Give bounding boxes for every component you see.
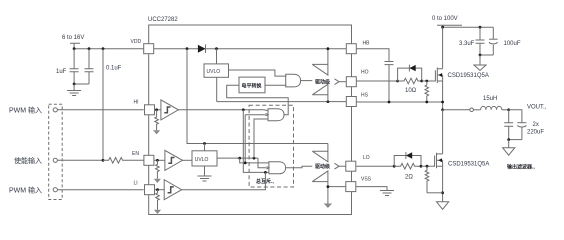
resistor 2 ohm — [394, 163, 421, 180]
interlock dashed box — [249, 105, 293, 187]
terminal circle EN — [53, 158, 57, 162]
svg-text:驱动级: 驱动级 — [315, 79, 330, 86]
wire to Q2 gate — [421, 165, 435, 167]
and gate interlock lower — [267, 162, 286, 174]
node HI pulldown — [155, 108, 158, 111]
pin HO — [346, 70, 368, 87]
capacitor 1uF — [56, 49, 79, 84]
transistor Q1 CSD19531Q5A — [435, 68, 488, 84]
ground Q2 source — [437, 202, 449, 210]
wire driver-hi bottom ref — [327, 95, 329, 102]
wire EN input — [57, 159, 103, 161]
label UCC27282 — [148, 17, 178, 23]
wire AND-hi to driver — [301, 80, 313, 82]
ground HV caps — [474, 55, 486, 71]
node 0.1uF junction — [88, 47, 91, 50]
wire Q2 pulldown join — [427, 192, 443, 194]
wire LO external — [356, 165, 394, 167]
wire Q1 source down — [442, 81, 444, 110]
wire HB external — [356, 49, 389, 62]
svg-text:驱动级: 驱动级 — [315, 163, 330, 170]
capacitor output film — [504, 110, 513, 140]
pin VDD — [131, 39, 154, 54]
node EN pulldown — [156, 159, 159, 162]
resistor Q2 gate-source — [425, 166, 429, 193]
wire to cap2 — [509, 110, 522, 123]
wire UVLO-hi feed — [216, 49, 218, 64]
node EN pullup junction — [102, 159, 105, 162]
node SW HS — [441, 101, 444, 104]
svg-text:PWM 输入: PWM 输入 — [9, 186, 42, 195]
wire EN up to AND1 — [254, 119, 268, 158]
svg-text:HO: HO — [361, 70, 369, 76]
label PWM input top — [9, 106, 42, 115]
IC UCC27282 outline — [149, 25, 352, 215]
wire internal VDD-HB rail — [154, 48, 347, 50]
and gate high-side output — [286, 74, 301, 87]
svg-text:UVLO: UVLO — [195, 157, 209, 163]
pin HB — [346, 41, 370, 54]
node EN-feed junction — [102, 47, 105, 50]
terminal circle SW — [470, 108, 474, 112]
node output cap 1 — [507, 108, 510, 111]
wire Q2 source down — [442, 166, 444, 202]
buffer HI schmitt — [155, 100, 179, 120]
node AND2 LI input — [264, 171, 267, 174]
svg-text:0 to 100V: 0 to 100V — [432, 16, 458, 22]
wire driver-hi out to HO — [339, 81, 346, 83]
node UVLO-lo top — [203, 142, 206, 145]
node UVLO-hi feed — [215, 47, 218, 50]
node gate2 network right — [420, 165, 423, 168]
diode turn-off high — [398, 65, 422, 81]
supply label 6 to 16V — [62, 35, 84, 41]
wire driver-hi top supply — [327, 47, 330, 64]
pin HI — [134, 100, 155, 115]
node EN split — [238, 157, 255, 160]
svg-text:输出滤波器.,: 输出滤波器., — [507, 164, 535, 171]
ground EN pulldown — [154, 179, 161, 183]
wire HS external — [356, 101, 442, 103]
wire UVLO-lo top feed — [204, 144, 206, 151]
and gate interlock upper — [266, 109, 284, 121]
transistor Q2 CSD19531Q5A — [435, 153, 490, 169]
node HI cross branch — [242, 108, 245, 111]
ground VSS external — [380, 191, 394, 196]
op-amp U-uvlo-hi box — [204, 64, 229, 77]
label 0 to 100V — [432, 16, 458, 22]
diode turn-off low — [394, 152, 421, 166]
node VDD branch — [186, 47, 189, 50]
wire EN buffer to UVLO — [183, 159, 193, 161]
svg-text:UCC27282: UCC27282 — [148, 17, 178, 23]
wire EN stub to AND2 wedge — [258, 158, 267, 168]
svg-text:HB: HB — [363, 41, 371, 47]
pin HS — [346, 93, 368, 107]
svg-text:3.3uF: 3.3uF — [459, 41, 475, 47]
pin EN — [132, 151, 154, 165]
capacitor 0.1uF — [85, 49, 122, 84]
svg-text:VOUT.,: VOUT., — [527, 105, 547, 111]
input connector dashed box — [49, 104, 63, 199]
wire UVLO-hi out to AND — [229, 70, 287, 76]
pin LI — [134, 181, 155, 195]
supply bar 6-16V — [70, 43, 80, 49]
buffer EN schmitt — [154, 150, 183, 170]
ground UVLO-lo — [198, 166, 212, 181]
label PWM input bottom — [9, 186, 42, 195]
label interlock — [256, 178, 274, 185]
wire output caps join — [507, 138, 522, 141]
wire HO external — [356, 80, 397, 82]
wire LI input — [57, 189, 143, 191]
wire AND1 out to level shift loop — [227, 85, 289, 114]
node Q2 source pulldown — [441, 191, 444, 194]
wire driver-lo out to LO — [339, 165, 346, 167]
wire UVLO-hi to HS rail — [216, 77, 218, 101]
wire VDD rail external — [74, 48, 144, 50]
wire driver-lo top supply — [327, 144, 329, 152]
node gate network right — [420, 80, 423, 83]
wire VDD to EN pull-up — [102, 49, 104, 161]
level shift box — [239, 77, 265, 93]
svg-text:使能输入: 使能输入 — [14, 156, 42, 165]
svg-text:HS: HS — [361, 93, 369, 99]
label output filter — [507, 164, 535, 171]
wire VDD down feed — [187, 49, 328, 144]
ground HI pulldown — [153, 130, 160, 134]
svg-text:电平转换: 电平转换 — [242, 82, 263, 89]
op-amp U-uvlo-lo box — [192, 151, 217, 166]
svg-text:EN: EN — [132, 151, 139, 157]
svg-text:100uF: 100uF — [504, 41, 521, 47]
wire EN down to AND2 — [240, 158, 269, 163]
wire HV caps join — [479, 54, 494, 57]
svg-text:1uF: 1uF — [56, 69, 67, 75]
svg-text:220uF: 220uF — [527, 130, 544, 136]
wire SW to circle — [443, 109, 470, 111]
wire cap bottoms join — [73, 83, 89, 86]
node SW inductor — [441, 108, 444, 111]
capacitor 100uF — [489, 27, 521, 55]
ground driver-lo arrow — [324, 204, 332, 209]
wire VSS internal — [327, 185, 346, 188]
terminal circle HI — [53, 108, 57, 112]
resistor EN pulldown — [156, 160, 160, 179]
capacitor 3.3uF — [459, 27, 485, 55]
label enable input — [14, 156, 42, 165]
svg-text:UVLO: UVLO — [207, 69, 221, 75]
wire HV rail — [441, 26, 493, 29]
ground input caps — [67, 84, 81, 96]
svg-text:2x: 2x — [533, 122, 539, 128]
resistor LI pulldown — [156, 190, 160, 210]
inductor 15uH — [473, 96, 508, 110]
node Q1 gate pulldown — [425, 80, 428, 83]
svg-text:0.1uF: 0.1uF — [106, 66, 122, 72]
supply bar 0-100V — [437, 25, 462, 27]
svg-text:6 to 16V: 6 to 16V — [62, 35, 84, 41]
node 3.3uF junction — [479, 26, 482, 29]
svg-text:HI: HI — [134, 100, 139, 106]
wire aux interlock — [244, 115, 266, 165]
svg-text:10Ω: 10Ω — [405, 88, 417, 94]
node LI pulldown — [156, 188, 159, 191]
wire Q2 drain from SW — [442, 110, 444, 154]
wire HI input — [57, 109, 143, 111]
node boot cap HS — [388, 101, 391, 104]
driver stage high-side — [312, 64, 339, 94]
svg-text:LO: LO — [363, 155, 370, 161]
wire to Q1 gate — [422, 80, 436, 82]
svg-text:LI: LI — [134, 181, 138, 187]
label VOUT — [527, 105, 547, 111]
driver stage low-side — [312, 151, 339, 181]
resistor 10 ohm — [398, 78, 422, 94]
svg-text:2Ω: 2Ω — [405, 175, 413, 181]
buffer LI schmitt — [155, 180, 182, 200]
node gate network left — [396, 80, 399, 83]
wire driver-lo bottom — [327, 182, 329, 204]
ground LI pulldown — [154, 210, 161, 214]
pin VSS — [346, 177, 372, 192]
svg-text:VSS: VSS — [361, 177, 372, 183]
resistor Q1 gate-source — [425, 81, 429, 102]
terminal circle LI — [53, 188, 57, 192]
wire HI buffer out — [178, 109, 268, 112]
node Q1 pulldown HS — [425, 101, 428, 104]
resistor EN series — [103, 158, 144, 164]
wire VSS external — [356, 187, 387, 191]
svg-text:VDD: VDD — [131, 39, 142, 45]
svg-text:PWM 输入: PWM 输入 — [9, 106, 42, 115]
wire HI cross to AND2 — [243, 110, 269, 173]
diode bootstrap internal — [198, 45, 206, 54]
svg-text:CSD19531Q5A: CSD19531Q5A — [448, 162, 489, 168]
wire LI buffer out — [182, 172, 266, 189]
resistor HI pulldown — [155, 110, 159, 130]
wire AND2 out to driver-lo — [286, 166, 313, 168]
ground output — [503, 140, 515, 156]
svg-text:15uH: 15uH — [483, 96, 497, 102]
pin LO — [346, 155, 370, 171]
node driver-hi bottom — [327, 100, 330, 103]
node Q2 gate pulldown — [426, 165, 429, 168]
wire HV to Q1 drain — [442, 27, 444, 68]
node gate2 network left — [393, 165, 396, 168]
wire level-shift out — [265, 84, 286, 86]
capacitor output electrolytic — [517, 122, 544, 140]
capacitor bootstrap — [385, 62, 394, 103]
node supply-rail junction — [73, 47, 76, 50]
wire UVLO-lo out — [217, 157, 258, 159]
wire HS internal rail — [217, 101, 347, 103]
svg-text:CSD19531Q5A: CSD19531Q5A — [448, 73, 489, 79]
